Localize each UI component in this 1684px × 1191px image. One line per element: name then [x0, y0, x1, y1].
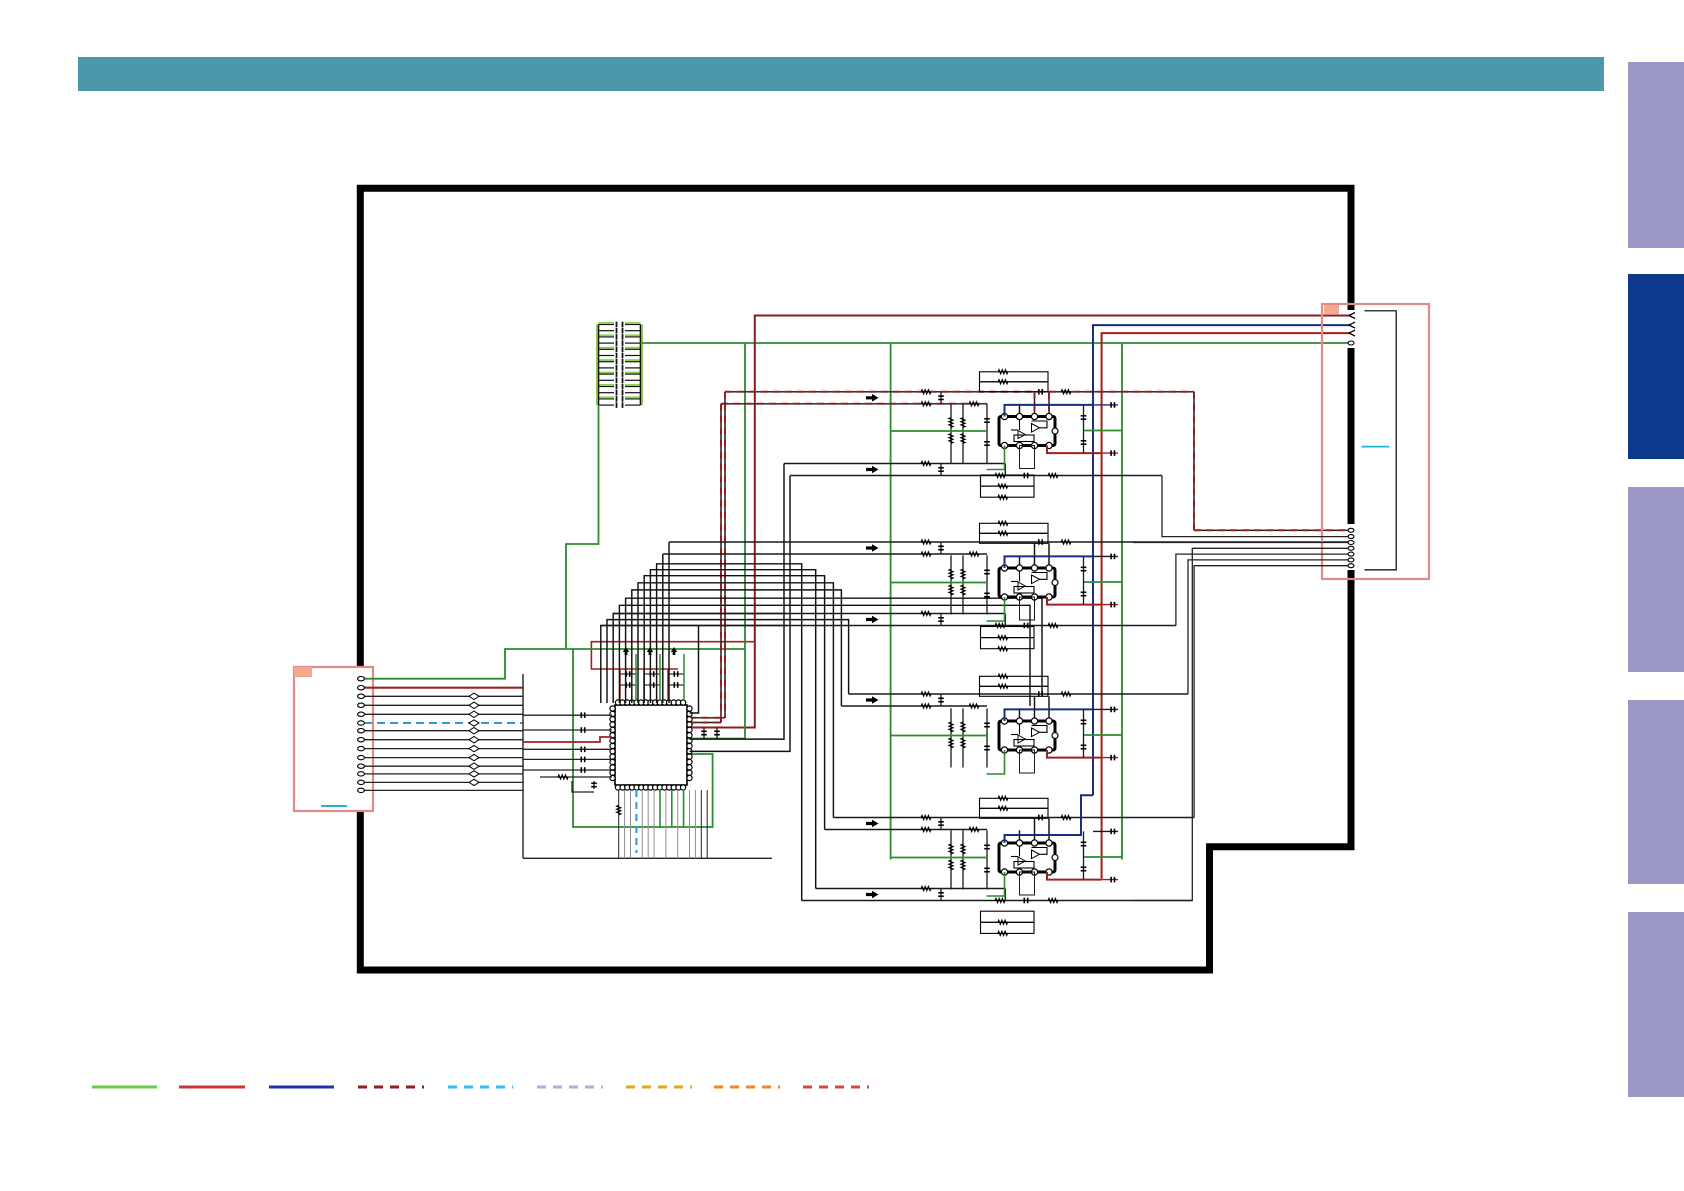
capacitor C3a [668, 673, 684, 675]
sidebar tab 5 [1628, 912, 1684, 1097]
capacitor array row 7 [599, 361, 615, 363]
wire bus from CN1 vertical [522, 674, 524, 858]
resistor divider R36a [962, 555, 964, 614]
feedback bus (dashed) left drop B to IC [720, 404, 722, 723]
ferrite bead FB12 [469, 771, 479, 777]
connector CN1 pin 5 [358, 712, 365, 716]
op-amp U5 pin bottom 1 [1001, 869, 1007, 875]
capacitor C33 [984, 569, 990, 571]
op-amp U2 pin top 4 [1046, 413, 1052, 419]
wire green node run at IC [573, 648, 745, 650]
op-amp U3 pin top 1 [1001, 565, 1007, 571]
sidebar tab 4 [1628, 700, 1684, 884]
wire fan line 11 [607, 620, 849, 703]
resistor pack below U5 rect1 [981, 911, 1035, 922]
op-amp U5 pin stubs [1019, 830, 1021, 843]
capacitor array row 6 [599, 355, 615, 357]
wire fan line 5 [644, 576, 824, 830]
connector CN1 pin 14 [358, 788, 365, 792]
border gap at connector CN1 [355, 668, 366, 796]
wire green hook U2 [987, 446, 1005, 470]
connector CN2 label line [1362, 446, 1390, 448]
wire row end drop [1004, 464, 1006, 476]
op-amp U2 triangle A [1032, 424, 1040, 433]
capacitor C23 [984, 418, 990, 420]
bus arrow [866, 466, 879, 474]
resistor divider R45a [950, 708, 952, 767]
wire ground run under IC [523, 857, 772, 859]
wire green from capacitor array down [566, 405, 599, 649]
capacitor array row 2 [599, 330, 615, 332]
op-amp U4 pin top 1 [1001, 718, 1007, 724]
IC U1 pins west [610, 706, 615, 711]
wire CN1 pin11 signal [364, 765, 523, 767]
op-amp U3 pin bottom 4 [1046, 594, 1052, 600]
capacitor C20 (red-green) [703, 728, 705, 739]
wire row 1 lower [790, 475, 1162, 477]
op-amp U3 pin top 3 [1031, 565, 1037, 571]
wire cap group 1 red leg [619, 669, 621, 700]
sidebar tab 1 [1628, 62, 1684, 248]
bus arrow [866, 544, 879, 552]
wire navy entry U2 [1005, 405, 1094, 417]
resistor pack below U3 rect2 [981, 638, 1035, 649]
wire CN1 pin10 signal [364, 757, 523, 759]
connector CN2 pin 3 [1349, 330, 1355, 336]
resistor divider R35a [950, 555, 952, 614]
op-amp U4 pin bottom 2 [1016, 747, 1022, 753]
ferrite bead FB7 [469, 728, 479, 734]
wire CN1 pin2 red [364, 687, 523, 689]
wire south gray [706, 790, 708, 858]
wire green south [671, 790, 673, 827]
connector CN2 inner body [1364, 311, 1396, 570]
resistor divider R26a [962, 404, 964, 463]
wire row 6 upper [816, 888, 1006, 890]
connector CN2 pin 1 [1349, 313, 1355, 319]
wire cap group 3 green leg [683, 654, 685, 700]
wire south gray [677, 790, 679, 858]
capacitor array row 13 [599, 398, 615, 400]
capacitor array row 12 [599, 392, 615, 394]
op-amp U3 pin stubs [1019, 555, 1021, 568]
resistor pack above U2 rect1 [980, 372, 1049, 382]
wire fan line 1 (U3 input) [668, 542, 670, 703]
wire CN1 pin1 green to node [364, 649, 573, 679]
capacitor array row 4 [599, 342, 615, 344]
capacitor C12 [580, 747, 582, 753]
wire green south [659, 790, 661, 827]
op-amp U3 body [999, 568, 1055, 597]
capacitor C37 chain [1083, 556, 1085, 604]
op-amp U3 pin bottom 2 [1016, 594, 1022, 600]
wire fan line 12 (U3 output) [601, 626, 787, 704]
capacitor C36 (red-green) [1102, 604, 1118, 606]
capacitor C3b [668, 684, 684, 686]
capacitor C53 [984, 844, 990, 846]
wire CN1 pin8 signal [364, 739, 523, 741]
wire CN1 pin3 signal [364, 695, 523, 697]
wire row 1 upper [784, 463, 1005, 465]
sidebar tab 2 (active) [1628, 274, 1684, 459]
header bar [78, 57, 1604, 91]
wire U1 west 5 [523, 769, 612, 771]
wire row 2 lower [663, 553, 987, 555]
capacitor C47 chain [1083, 709, 1085, 757]
op-amp U5 pin top 4 [1046, 840, 1052, 846]
capacitor array row 14 [599, 404, 615, 406]
resistor divider R36b [961, 585, 965, 595]
wire red exit U5 [1047, 872, 1102, 880]
connector CN2 box [1322, 304, 1429, 579]
sidebar tab 3 [1628, 487, 1684, 672]
wire fan line 4 [650, 570, 815, 889]
wire CN1 pin12 signal [364, 773, 523, 775]
wire CN1 pin7 signal [364, 730, 523, 732]
wire green loop around IC south [573, 649, 713, 827]
ferrite bead FB11 [469, 763, 479, 769]
wire fan line 7 [632, 590, 842, 706]
op-amp U5 pin bottom 2 [1016, 869, 1022, 875]
op-amp U2 pin bottom 2 [1016, 442, 1022, 448]
op-amp U5 internal wires [1019, 843, 1021, 857]
wire green stub left U5 [891, 857, 987, 859]
resistor divider R56a [962, 830, 964, 889]
resistor divider R45b [949, 738, 953, 748]
capacitor C54 [984, 867, 990, 869]
wire south gray [630, 790, 632, 858]
feedback bus (dashed) left drop A to IC [724, 392, 726, 718]
op-amp U5 pin bottom 3 [1031, 869, 1037, 875]
connector CN2 corner mark [1324, 305, 1339, 314]
op-amp U4 body [999, 721, 1055, 750]
resistor pack below U3 rect1 [981, 627, 1035, 638]
wire red run to CN2 pin3 [1102, 333, 1351, 879]
components row 4 [921, 692, 931, 696]
wire stub below U3 [1020, 597, 1035, 620]
wire green stub right U3 [1084, 581, 1123, 583]
wire CN1 pin13 signal [364, 781, 523, 783]
wire stub below U4 [1020, 750, 1035, 773]
connector CN1 corner mark [294, 667, 312, 677]
legend gold dashed [626, 1086, 692, 1089]
connector CN2 pin 9 [1348, 552, 1354, 556]
op-amp U4 pin top 4 [1046, 718, 1052, 724]
wire U1 west 4 [523, 758, 612, 760]
op-amp U3 pin top 2 [1016, 565, 1022, 571]
wire CN1 pin14 signal [364, 789, 523, 791]
wire CN2 pin7 return [1133, 542, 1351, 544]
legend red wire [179, 1086, 245, 1089]
connector CN2 pin 5 [1348, 528, 1354, 532]
legend blue wire [269, 1086, 334, 1089]
connector CN1 label line [321, 805, 347, 807]
board outline (thick border with notch) [360, 188, 1351, 970]
capacitor C2b [644, 684, 660, 686]
wire row 6 lower [802, 900, 1193, 902]
connector CN2 pin 2 [1349, 322, 1355, 328]
wire green stub left U3 [891, 582, 987, 584]
legend red dashed [803, 1086, 869, 1089]
wire green stub left U4 [891, 735, 987, 737]
op-amp U4 pin top 2 [1016, 718, 1022, 724]
bus arrow [866, 891, 879, 899]
wire fan line 10 (U3 output) [613, 614, 787, 704]
connector CN1 pin 6 [358, 721, 365, 725]
wire CN2 pin6 return [1162, 476, 1351, 537]
wire navy entry U5 [1005, 795, 1094, 843]
wire cap group 3 red leg [667, 669, 669, 700]
wire green bus mid [890, 343, 892, 860]
resistor R2 [540, 776, 612, 778]
wire CN1 pin4 signal [364, 704, 523, 706]
op-amp U2 pin top 1 [1001, 413, 1007, 419]
wire net U2 vertical [986, 404, 988, 463]
capacitor C11 [580, 727, 582, 733]
wire south gray [653, 790, 655, 858]
op-amp U2 body [999, 417, 1055, 446]
capacitor C13 [580, 757, 582, 763]
wire net U4 vertical [986, 708, 988, 767]
wire green south [683, 790, 685, 827]
wire U1 west 1 [523, 714, 612, 716]
op-amp U2 pin bottom 3 [1031, 442, 1037, 448]
components row 3 [921, 612, 931, 616]
wire red exit U2 [1047, 446, 1102, 454]
capacitor C24 [984, 441, 990, 443]
ferrite bead FB3 [469, 693, 479, 699]
ferrite bead FB13 [469, 779, 479, 785]
connector CN1 pin 4 [358, 703, 365, 707]
capacitor array row 9 [599, 373, 615, 375]
wire dark red top run to CN2 pin1 [690, 316, 1352, 728]
bus arrow [866, 696, 879, 704]
wire red exit U3 [1047, 597, 1102, 605]
resistor pack above U5 rect2 [980, 808, 1049, 818]
components U2 input row [921, 390, 931, 394]
op-amp U5 triangle A [1032, 850, 1040, 859]
connector CN1 pin 1 [358, 677, 365, 681]
capacitor C55 (navy-green) [1093, 830, 1118, 832]
ferrite bead FB6 [469, 720, 479, 726]
feedback bus (dashed) vertical to CN2 [1193, 392, 1195, 531]
wire cap group 2 green leg [659, 654, 661, 700]
resistor divider R55a [950, 830, 952, 889]
arrow up group 3 [671, 647, 677, 655]
connector CN1 box [294, 667, 373, 811]
wire row 5 upper [833, 817, 1194, 819]
op-amp U2 pin bottom 1 [1001, 442, 1007, 448]
capacitor C26 (red-green) [1102, 452, 1118, 454]
op-amp U5 pin top 3 [1031, 840, 1037, 846]
op-amp U3 pin bottom 1 [1001, 594, 1007, 600]
connector CN1 pin 11 [358, 764, 365, 768]
capacitor C15 [593, 781, 595, 789]
capacitor C44 [984, 745, 990, 747]
wire net U5 vertical [986, 830, 988, 889]
legend dark red dashed [358, 1086, 424, 1089]
wire C15 return [572, 781, 594, 792]
resistor divider R25b [949, 434, 953, 443]
capacitor C1a [620, 673, 636, 675]
wire red branch to cap groups [591, 642, 754, 669]
IC U1 pins south [615, 785, 620, 790]
capacitor C45 (navy-green) [1093, 708, 1118, 710]
capacitor array row 8 [599, 367, 615, 369]
capacitor C27 chain [1083, 405, 1085, 453]
wire green hook U4 [987, 750, 1005, 774]
wire cap group 1 green leg [635, 654, 637, 700]
op-amp U2 pin top 3 [1031, 413, 1037, 419]
capacitor C57 chain [1083, 831, 1085, 879]
resistor divider R55b [949, 860, 953, 870]
wire south gray [665, 790, 667, 858]
wire red exit U4 [1047, 750, 1102, 758]
resistor pack above U5 rect1 [980, 798, 1049, 808]
capacitor array row 5 [599, 348, 615, 350]
ferrite bead FB4 [469, 702, 479, 708]
connector CN1 pin 12 [358, 772, 365, 776]
connector CN1 pin 13 [358, 780, 365, 784]
resistor divider R56b [961, 860, 965, 870]
legend orange dashed [714, 1086, 780, 1089]
capacitor array row 11 [599, 386, 615, 388]
resistor pack above U4 rect2 [980, 686, 1049, 696]
wire U1 west 3 [523, 748, 612, 750]
op-amp U5 pin top 1 [1001, 840, 1007, 846]
resistor pack below U5 rect2 [981, 922, 1035, 933]
capacitor array left rail [598, 325, 600, 406]
wire fan line 3 [657, 564, 802, 901]
op-amp U2 pin top 2 [1016, 413, 1022, 419]
capacitor array row 3 [599, 336, 615, 338]
op-amp U5 pin top 2 [1016, 840, 1022, 846]
wire CN1 blue dashed signal [364, 722, 523, 724]
wire south gray [647, 790, 649, 858]
capacitor C14 [580, 767, 582, 773]
wire stub below U2 [1020, 446, 1035, 469]
op-amp U4 pin bottom 1 [1001, 747, 1007, 753]
ferrite bead FB9 [469, 745, 479, 751]
op-amp U4 pin stubs [1019, 708, 1021, 721]
wire south gray [700, 790, 702, 858]
wire south gray [689, 790, 691, 858]
connector CN1 pin 10 [358, 755, 365, 759]
arrow up group 1 [623, 647, 629, 655]
wire green bus right [1121, 343, 1123, 860]
border gap at connector CN2 bottom pins [1345, 524, 1357, 570]
wire CN1 pin5 signal [364, 713, 523, 715]
bus arrow [866, 394, 879, 402]
wire green stub right U5 [1084, 856, 1123, 858]
wire CN2 pin9 return [1176, 554, 1351, 625]
op-amp U2 internal wires [1019, 417, 1021, 431]
capacitor C43 [984, 722, 990, 724]
wire net U3 vertical [986, 555, 988, 614]
wire green bus to CN2 (top net) [641, 342, 1352, 344]
wire green hook U5 [987, 872, 1005, 896]
capacitor C34 [984, 592, 990, 594]
ferrite bead FB8 [469, 737, 479, 743]
wire row 2 upper [669, 541, 1351, 543]
wire green stub right U2 [1084, 430, 1123, 432]
op-amp U3 pin bottom 3 [1031, 594, 1037, 600]
op-amp U5 body [999, 843, 1055, 872]
op-amp U4 triangle A [1032, 728, 1040, 737]
wire CN1 pin9 signal [364, 748, 523, 750]
wire row 5 lower [825, 829, 987, 831]
wire south gray [694, 790, 696, 858]
wire navy run to CN2 pin2 [1093, 325, 1351, 795]
legend green wire [92, 1086, 157, 1089]
capacitor C35 (navy-green) [1093, 555, 1118, 557]
wire south gray [618, 790, 620, 858]
op-amp U5 triangle B [1018, 857, 1025, 865]
capacitor C1b [620, 684, 636, 686]
wire fan line 9 [619, 605, 1030, 706]
resistor divider R46a [962, 708, 964, 767]
connector CN2 pin 4 [1348, 341, 1354, 345]
wire green hook U3 [987, 597, 1005, 621]
components row 2 [921, 540, 931, 544]
connector CN1 pin 2 [358, 686, 365, 690]
wire fan line 2 (U3 input) [662, 554, 664, 703]
wire south gray [624, 790, 626, 858]
wire row 4 lower [841, 705, 987, 707]
bus arrow [866, 820, 879, 828]
op-amp U4 internal wires [1019, 721, 1021, 735]
capacitor C46 (red-green) [1102, 757, 1118, 759]
op-amp U4 triangle B [1018, 735, 1025, 743]
op-amp U3 internal wires [1019, 568, 1021, 582]
wire CN2 pin10 return [1188, 560, 1351, 694]
resistor R3 (south) [617, 806, 621, 815]
connector CN2 pin 8 [1348, 546, 1354, 550]
feedback bus (dashed) lower [721, 403, 987, 405]
op-amp U4 pin top 3 [1031, 718, 1037, 724]
wire cascade U2-out-lower to IC east [690, 476, 791, 752]
wire fan line 6 [638, 583, 833, 818]
op-amp U4 pin bottom 3 [1031, 747, 1037, 753]
bus arrow [866, 616, 879, 624]
components row 6 [921, 887, 931, 891]
op-amp U3 pin top 4 [1046, 565, 1052, 571]
wire stub below U5 [1020, 872, 1035, 895]
wire U1 west 2 [523, 729, 612, 731]
connector CN2 pin 10 [1348, 558, 1354, 562]
legend cyan dashed [448, 1086, 513, 1089]
wire blue dashed service line [635, 790, 637, 853]
connector CN1 pin 7 [358, 729, 365, 733]
capacitor C56 (red-green) [1102, 879, 1118, 881]
wire row end drop [1004, 614, 1006, 626]
wire row 4 upper [849, 693, 1188, 695]
capacitor C10 [580, 712, 582, 718]
connector CN2 pin 7 [1348, 541, 1354, 545]
capacitor C2a [644, 673, 660, 675]
capacitor array row 1 [599, 324, 615, 326]
IC U1 pins north [615, 700, 620, 705]
connector CN1 pin 8 [358, 738, 365, 742]
connector CN1 pin 9 [358, 746, 365, 750]
wire cascade block2-out to IC east [690, 626, 699, 714]
capacitor C25 (navy-green) [1093, 404, 1118, 406]
components row 1 [921, 462, 931, 466]
op-amp U3 triangle A [1032, 575, 1040, 584]
wire CN2 pin8 return [1133, 548, 1351, 900]
op-amp U4 pin bottom 4 [1046, 747, 1052, 753]
wire row end drop [1004, 889, 1006, 901]
